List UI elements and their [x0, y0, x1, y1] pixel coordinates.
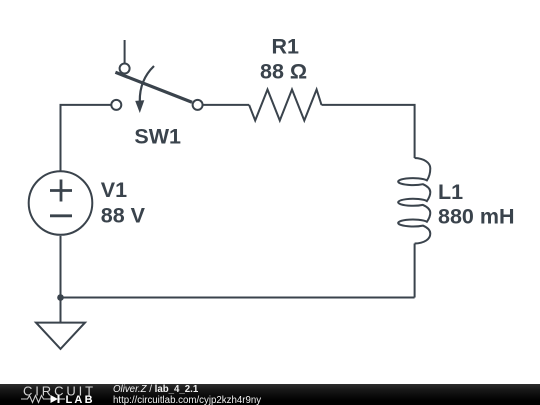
- voltage source V1: [29, 171, 93, 235]
- svg-text:88 Ω: 88 Ω: [260, 60, 307, 84]
- switch SW1 right terminal: [193, 100, 203, 110]
- switch SW1 blade: [115, 72, 192, 102]
- switch SW1 arrow: [140, 66, 154, 101]
- footer credit text: [113, 385, 261, 405]
- wire switch top stub: [124, 40, 126, 63]
- wire resistor to top-right corner: [322, 105, 415, 158]
- switch SW1 top terminal: [120, 64, 130, 74]
- resistor R1: [249, 90, 321, 121]
- ground: [36, 323, 85, 349]
- CircuitLab logo: [21, 384, 126, 405]
- wire switch to resistor: [203, 104, 249, 106]
- switch SW1 left terminal: [111, 100, 121, 110]
- V1 minus sign: [50, 214, 72, 217]
- svg-text:88 V: 88 V: [101, 204, 146, 228]
- footer bar: [0, 384, 540, 405]
- svg-text:SW1: SW1: [134, 124, 181, 148]
- svg-text:V1: V1: [101, 178, 127, 202]
- wire inductor to bottom rail: [414, 244, 416, 298]
- wire switch left terminal to V1 top: [61, 105, 112, 171]
- svg-text:880 mH: 880 mH: [438, 204, 515, 228]
- svg-text:R1: R1: [272, 35, 300, 59]
- wire ground stub: [60, 298, 62, 323]
- svg-text:LAB: LAB: [66, 394, 95, 405]
- wire bottom rail: [61, 297, 415, 299]
- V1 plus sign: [50, 189, 72, 192]
- wire V1 bottom: [60, 236, 62, 298]
- junction dot: [57, 294, 64, 301]
- svg-text:L1: L1: [438, 180, 463, 204]
- inductor L1: [398, 158, 430, 244]
